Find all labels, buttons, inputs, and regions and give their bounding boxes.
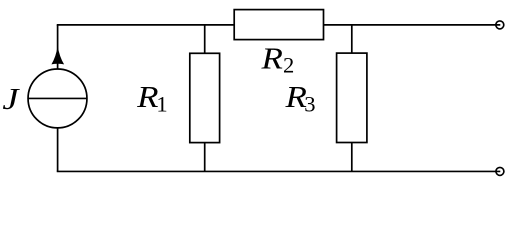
terminal: bottom-right open circle [496,167,504,175]
resistor R3 box [337,53,367,142]
resistor R1 box [190,53,220,142]
svg-text:R: R [260,42,282,76]
current source J: diameter line [28,97,87,99]
wire: current source bottom lead [57,128,59,172]
wire: R3 top lead [351,25,353,53]
terminal: top-right open circle [496,21,504,29]
svg-text:2: 2 [283,53,294,78]
svg-text:R: R [136,81,158,115]
svg-text:1: 1 [156,91,167,116]
wire: bottom rail [57,170,501,172]
label R2 [260,42,282,76]
wire: top rail left segment (corner to R2 left) [57,24,234,26]
svg-text:3: 3 [304,91,315,116]
wire: R1 top lead [204,25,206,53]
label J [2,82,20,116]
resistor R2 box [234,10,323,40]
current source J: circle [28,69,87,128]
wire: top rail right segment (R2 right to top terminal) [324,24,501,26]
wire: R3 bottom lead [351,143,353,172]
current source J: arrowhead [51,46,64,65]
wire: R1 bottom lead [204,143,206,172]
wire: left rail, current source top to top-left corner [57,25,59,69]
label R3 [284,81,306,115]
svg-text:J: J [2,82,20,116]
label R1 [136,81,158,115]
